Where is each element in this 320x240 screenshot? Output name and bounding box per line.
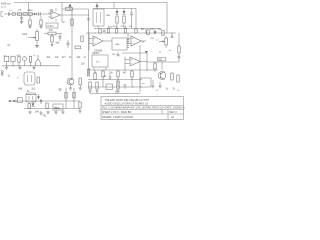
svg-text:0A91: 0A91 — [28, 9, 34, 12]
wire vertical x136 — [135, 9, 137, 29]
resistor R3 feedback — [66, 8, 73, 11]
svg-text:10u: 10u — [129, 26, 133, 28]
wire long vertical x88 — [88, 9, 90, 75]
svg-text:SAD: SAD — [115, 43, 120, 46]
resistor R6 — [75, 46, 81, 49]
svg-text:78L: 78L — [43, 116, 48, 118]
node dot — [132, 86, 133, 87]
node dot bus c — [145, 32, 146, 33]
svg-text:REG: REG — [54, 106, 60, 110]
svg-text:22k: 22k — [77, 57, 82, 59]
wire y70 bus — [88, 69, 158, 71]
svg-text:DRAWN: J.SMITH 12/04/82: DRAWN: J.SMITH 12/04/82 — [102, 116, 133, 119]
node arrow A2 — [95, 4, 98, 9]
wire x125 vertical — [124, 57, 126, 70]
diode D2 — [116, 9, 119, 15]
wire mid rail y28.5 — [95, 28, 160, 30]
resistor R26 — [29, 56, 31, 66]
svg-text:6v: 6v — [27, 91, 30, 93]
wire input — [7, 13, 52, 15]
resistor R33 — [177, 75, 179, 82]
svg-text:4k7: 4k7 — [62, 57, 66, 59]
resistor R25 — [18, 56, 20, 66]
resistor R5 horizontal — [44, 32, 62, 35]
stub x162 — [161, 62, 163, 70]
wire x66 vertical — [65, 88, 67, 109]
capacitor C13 — [109, 75, 112, 80]
IC box U5 — [112, 38, 129, 50]
resistor R2 — [23, 13, 27, 16]
resistor R40 — [73, 93, 75, 99]
resistor R41 — [78, 102, 81, 113]
capacitor C6 right — [178, 56, 181, 57]
diode D6 — [37, 94, 40, 99]
svg-text:1n5: 1n5 — [150, 29, 155, 31]
resistor R18 — [117, 70, 119, 87]
resistor R31 — [154, 62, 156, 72]
capacitor C8 — [103, 30, 106, 31]
node dot — [71, 14, 72, 15]
box on bus — [106, 84, 113, 90]
wire feedback — [62, 8, 89, 10]
svg-text:SHEET 2 OF 3 - MAIN BD: SHEET 2 OF 3 - MAIN BD — [102, 111, 131, 114]
resistor R11 — [115, 26, 117, 33]
svg-text:100k: 100k — [22, 34, 28, 36]
svg-text:FILE: C:\SCHEMS\WASP\VCF_OSC_B: FILE: C:\SCHEMS\WASP\VCF_OSC_BOARD_REV2.… — [102, 107, 185, 110]
node dot — [156, 39, 157, 40]
transistor Q2 — [158, 72, 166, 80]
svg-text:REV 2: REV 2 — [170, 111, 178, 114]
wire mid bus y33 — [86, 32, 176, 34]
svg-text:NE571: NE571 — [93, 53, 101, 55]
diode D5 — [145, 51, 148, 54]
resistor R21 — [95, 82, 98, 93]
IC label box U1 — [46, 23, 58, 28]
svg-text:1u: 1u — [169, 50, 172, 52]
resistor R2b — [29, 13, 33, 16]
diode D3 — [123, 9, 126, 15]
node dot bus b — [104, 32, 105, 33]
ground pot — [35, 46, 39, 48]
resistor R42 — [50, 34, 53, 47]
IC box U2 — [93, 3, 104, 27]
wire rail drop x28 — [28, 3, 30, 13]
resistor R10 — [107, 26, 109, 33]
svg-text:10k: 10k — [109, 73, 114, 75]
capacitor C2 to ground — [20, 15, 23, 23]
svg-text:1k: 1k — [166, 89, 169, 91]
svg-text:TL071: TL071 — [47, 26, 54, 28]
svg-text:1n: 1n — [142, 42, 145, 44]
svg-text:2k2: 2k2 — [47, 57, 51, 59]
capacitor C1 — [8, 12, 10, 15]
capacitor C1b — [39, 12, 41, 15]
capacitor C10 — [117, 52, 120, 55]
wire mid rail y8.5 — [93, 8, 136, 10]
op-amp U1 — [48, 11, 60, 19]
wire rail drop x62 — [61, 3, 63, 23]
ground bus66 b — [18, 66, 21, 70]
svg-text:1N4: 1N4 — [35, 112, 40, 114]
svg-text:1M: 1M — [62, 22, 65, 24]
resistor R15 right — [178, 33, 180, 62]
wire x140 vertical — [139, 45, 141, 92]
svg-text:4069 vco: 4069 vco — [1, 3, 11, 6]
resistor R30 — [87, 69, 89, 76]
capacitor C12 — [87, 19, 90, 20]
wire x128 vertical — [127, 33, 129, 44]
jack circle — [12, 12, 16, 16]
svg-text:TBA: TBA — [106, 14, 111, 17]
wire x114 stub — [113, 3, 115, 9]
title block frame — [101, 97, 184, 120]
connector J1 — [1, 12, 7, 17]
op-amp U1 supply pins — [55, 8, 57, 22]
resistor R43 — [81, 36, 83, 42]
svg-text:47k: 47k — [50, 10, 55, 12]
wire x89 vertical left of U3A — [88, 33, 90, 50]
svg-text:22k: 22k — [103, 76, 107, 78]
svg-text:AUDIO OSCILLATOR/VCF BOARD 2/3: AUDIO OSCILLATOR/VCF BOARD 2/3 — [105, 102, 149, 105]
diode D7 — [32, 101, 35, 106]
svg-text:10n: 10n — [81, 64, 86, 66]
box S1 — [4, 56, 9, 66]
node dots bus66 — [6, 65, 7, 66]
wire y62 right — [147, 61, 179, 63]
wire y66 left bus — [2, 65, 60, 67]
valve V2 — [26, 93, 36, 102]
valve V1 — [24, 72, 35, 85]
resistor R9 — [123, 16, 125, 29]
connector J2 — [1, 71, 3, 76]
resistor R16 — [145, 30, 147, 33]
transistor Q3 — [36, 55, 41, 66]
capacitor C11 — [171, 33, 174, 37]
svg-text:6k8: 6k8 — [19, 89, 23, 91]
capacitor C3 to ground — [28, 15, 31, 28]
svg-text:47: 47 — [156, 90, 159, 92]
svg-text:4k7: 4k7 — [113, 26, 117, 28]
ground Q1 — [69, 85, 72, 90]
node dot — [88, 14, 89, 15]
ground bottom 4 — [54, 111, 57, 115]
box REG — [53, 104, 63, 110]
diode D1 — [34, 13, 37, 16]
resistor R14 — [162, 30, 164, 35]
svg-text:1k: 1k — [8, 76, 11, 78]
box S2 — [11, 56, 15, 66]
wire x167 drop — [166, 10, 168, 33]
pot VR1 — [28, 29, 38, 46]
wire y101 left — [8, 100, 80, 102]
svg-text:10k: 10k — [18, 10, 22, 12]
wire U1 output — [60, 14, 89, 16]
ground bus66 c — [32, 66, 35, 70]
wire y79.5 bus — [88, 79, 142, 81]
resistor R22 — [116, 81, 119, 93]
resistor R20 — [88, 82, 91, 93]
resistor R32 — [171, 73, 173, 80]
resistor R2c to ground — [39, 16, 42, 29]
resistor R8 — [116, 16, 118, 29]
resistor R12b — [135, 29, 137, 33]
diode D10 — [40, 99, 43, 104]
resistor R37b — [28, 104, 30, 109]
svg-text:0V: 0V — [8, 45, 11, 47]
svg-text:2k: 2k — [173, 89, 176, 91]
box T1 — [140, 78, 151, 87]
wire y108.5 bottom bus — [24, 108, 80, 110]
node dot — [17, 77, 18, 78]
diode D8 — [9, 100, 12, 103]
node dot u3a top — [94, 32, 95, 33]
wire x147 vertical — [146, 53, 148, 70]
ground bottom 5 — [61, 111, 64, 115]
op-amp U3B — [128, 36, 146, 46]
resistor R39 — [65, 93, 67, 99]
resistor R29 — [79, 78, 82, 90]
svg-text:1n: 1n — [177, 90, 180, 92]
wire long vertical x72 — [71, 9, 73, 80]
capacitor C4 — [67, 40, 70, 48]
ground bus66 a — [5, 66, 8, 70]
resistor R44 — [94, 70, 96, 80]
ground bottom 3 — [46, 111, 49, 115]
resistor R19 — [131, 70, 133, 87]
box fuse — [17, 98, 22, 103]
resistor R28 — [37, 77, 39, 83]
svg-text:2k2: 2k2 — [151, 38, 155, 40]
ground bottom 1 — [28, 111, 31, 115]
svg-text:5k6: 5k6 — [112, 54, 116, 56]
pins U4 — [94, 67, 106, 70]
node arrow A1 — [68, 4, 71, 10]
capacitor C9 — [59, 34, 62, 42]
resistor R12 — [124, 26, 126, 33]
svg-text:4k7: 4k7 — [123, 73, 127, 75]
capacitor C5 — [130, 9, 133, 29]
pot VR2 — [159, 36, 167, 48]
op-amp U6 — [125, 57, 147, 66]
stub x116 — [115, 90, 117, 94]
diode D9 — [13, 100, 16, 103]
svg-text:571: 571 — [96, 62, 100, 64]
diode D4 down — [154, 29, 157, 34]
jack circle S3 — [23, 57, 27, 66]
svg-text:10n: 10n — [55, 57, 60, 59]
svg-text:osc: osc — [142, 83, 146, 85]
svg-text:2n2: 2n2 — [32, 89, 37, 91]
wire y53 — [122, 52, 147, 54]
wire x74 vertical — [73, 88, 75, 109]
node dot — [124, 69, 125, 70]
ground bottom 2 — [39, 111, 42, 116]
small box lower — [158, 58, 166, 62]
op-amp U3A — [89, 36, 112, 46]
ground Q2 — [151, 80, 154, 88]
node dot bus a — [94, 28, 95, 29]
node dot 160 52 — [159, 51, 160, 52]
capacitor C7 — [124, 85, 127, 89]
node dots y79.5 — [102, 79, 103, 80]
node dot bus — [171, 32, 172, 33]
wire y87 bus — [88, 86, 142, 88]
svg-text:22k: 22k — [141, 29, 146, 31]
ground x60 — [58, 89, 61, 91]
resistor R13 on bus — [147, 30, 149, 35]
wire +V top rail — [14, 3, 167, 11]
svg-text:1n: 1n — [9, 10, 12, 12]
resistor R1 — [17, 13, 21, 16]
svg-text:5k6: 5k6 — [56, 43, 60, 45]
node dot — [146, 69, 147, 70]
resistor R17 — [102, 70, 104, 87]
resistor R38 — [46, 103, 48, 109]
ground R32 — [158, 82, 161, 88]
IC box U4 — [92, 55, 108, 67]
wire y93 — [90, 93, 140, 95]
svg-text:1n: 1n — [84, 57, 87, 59]
svg-text:1u: 1u — [33, 55, 36, 57]
resistor R10b — [99, 29, 101, 34]
svg-text:to vcf: to vcf — [1, 6, 7, 9]
transistor Q1 — [67, 78, 74, 85]
resistor R4 vertical — [71, 19, 73, 26]
